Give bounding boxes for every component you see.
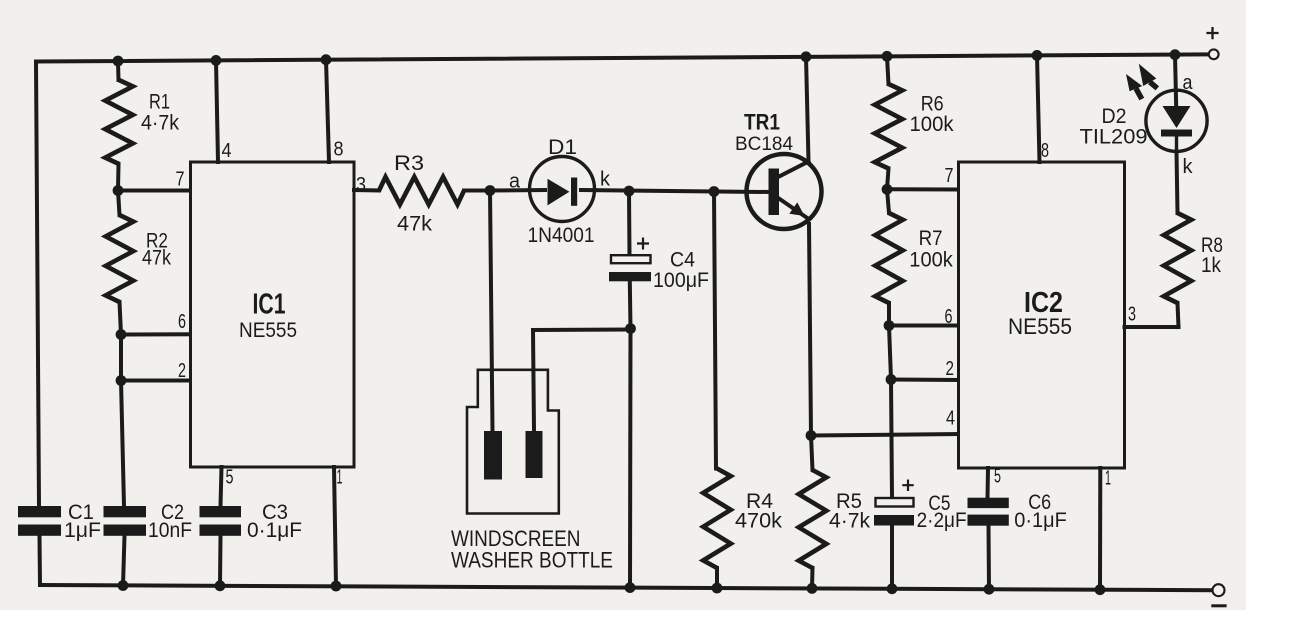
svg-text:7: 7	[945, 165, 954, 187]
svg-text:R3: R3	[394, 152, 424, 175]
label - (minus)	[1211, 604, 1226, 607]
wire top + rail	[36, 54, 1208, 61]
svg-text:8: 8	[334, 139, 344, 161]
wire IC2 pin 3	[1125, 325, 1179, 329]
junction	[1095, 584, 1106, 595]
svg-text:k: k	[600, 169, 611, 191]
wire IC1 pin 8	[326, 60, 329, 162]
svg-text:3: 3	[1128, 304, 1136, 326]
wire R1 bottom lead	[116, 164, 121, 191]
windscreen washer bottle outline	[467, 370, 559, 514]
svg-text:100k: 100k	[910, 113, 954, 136]
svg-text:100k: 100k	[909, 249, 953, 272]
wire R5 top lead	[811, 436, 813, 471]
resistor R8	[1164, 213, 1192, 303]
wire IC1 pin 5	[221, 467, 222, 506]
junction	[331, 581, 342, 592]
svg-text:4: 4	[222, 140, 232, 162]
wire IC1 pin 4	[216, 60, 218, 162]
label + (C5 polarity)	[902, 480, 913, 492]
svg-text:R1: R1	[149, 91, 170, 114]
svg-text:k: k	[1183, 156, 1194, 178]
wire TR1 collector diag	[779, 162, 809, 177]
capacitor C1	[18, 506, 61, 517]
svg-text:1k: 1k	[1201, 254, 1221, 277]
resistor R6	[875, 84, 903, 169]
junction	[118, 580, 129, 591]
label + (C4 polarity)	[637, 238, 649, 250]
svg-text:2: 2	[946, 358, 955, 380]
wire left vertical (C1 to rail)	[38, 536, 43, 585]
wire pin6-pin2 link	[119, 335, 123, 381]
node R2/pin6	[116, 329, 127, 340]
resistor R7	[875, 213, 903, 303]
wire R1 top lead	[116, 61, 121, 80]
op-amp/timer IC2 NE555 box	[959, 162, 1125, 468]
- supply terminal	[1213, 584, 1225, 596]
svg-text:NE555: NE555	[239, 318, 297, 342]
svg-text:0·1μF: 0·1μF	[247, 519, 302, 542]
op-amp/timer IC1 NE555 box	[191, 162, 355, 467]
wire R7 bottom lead	[887, 303, 891, 326]
svg-text:5: 5	[226, 467, 234, 489]
wire left vertical (rail to C1)	[36, 62, 39, 507]
svg-text:6: 6	[178, 311, 186, 333]
junction	[801, 51, 812, 62]
capacitor C3	[200, 506, 242, 517]
svg-text:a: a	[1183, 72, 1194, 94]
wire R2 bottom lead	[120, 302, 122, 335]
junction	[984, 584, 995, 595]
wire R4 top lead	[714, 192, 716, 469]
wire R6 top lead	[887, 56, 889, 84]
wire probe B lead	[533, 330, 534, 431]
wire C3 to rail	[218, 536, 223, 586]
svg-text:NE555: NE555	[1008, 314, 1072, 339]
wire IC1 pin 6	[121, 332, 194, 336]
wire IC2 pin 8	[1037, 55, 1040, 162]
LED light arrow 1	[1126, 74, 1142, 91]
wire TR1 collector to rail	[806, 56, 809, 161]
wire D2 inner lead	[1175, 133, 1178, 151]
wire IC2 pin 2	[891, 378, 959, 383]
svg-text:4·7k: 4·7k	[141, 112, 179, 135]
svg-text:6: 6	[945, 306, 953, 328]
junction	[625, 582, 636, 593]
junction	[712, 583, 723, 594]
wire R7 top lead	[887, 189, 889, 213]
svg-text:BC184: BC184	[735, 133, 793, 155]
wire pin6-pin2 link IC2	[889, 326, 891, 380]
svg-text:8: 8	[1041, 140, 1049, 162]
svg-text:47k: 47k	[397, 213, 433, 236]
wire pin3 riser	[1178, 303, 1179, 327]
wire C4 node to rail	[628, 329, 633, 588]
+ supply terminal	[1209, 49, 1219, 59]
svg-text:R7: R7	[919, 227, 943, 250]
wire IC1 pin 3	[354, 188, 379, 193]
capacitor C6	[968, 498, 1009, 508]
wire IC2 pin 6	[889, 324, 959, 328]
svg-text:4·7k: 4·7k	[829, 510, 870, 533]
resistor R3	[379, 177, 464, 205]
svg-text:1N4001: 1N4001	[528, 224, 595, 247]
LED D2 TIL209	[1146, 90, 1207, 151]
svg-text:100μF: 100μF	[653, 269, 709, 292]
capacitor C2	[104, 506, 147, 517]
resistor R1	[105, 80, 133, 164]
svg-text:10nF: 10nF	[148, 519, 192, 542]
wire D1 cathode to TR1 base	[581, 190, 769, 192]
node pin2 IC2	[886, 374, 897, 385]
wire D2 anode lead	[1175, 55, 1177, 120]
probe electrode B	[526, 431, 543, 478]
junction	[321, 54, 332, 65]
wire probe A lead	[490, 191, 493, 432]
svg-text:2·2μF: 2·2μF	[917, 509, 967, 532]
node TR1 base	[709, 186, 720, 197]
svg-text:TR1: TR1	[744, 110, 780, 135]
wire IC1 pin 1	[334, 467, 336, 586]
svg-text:0·1μF: 0·1μF	[1014, 509, 1067, 532]
svg-text:1: 1	[337, 467, 343, 489]
wire R6 bottom lead	[887, 169, 889, 190]
wire IC2 pin 4	[811, 434, 959, 436]
wire TR1 emitter diag	[779, 199, 807, 218]
wire R3 to node a	[464, 189, 490, 193]
wire C6 to rail	[987, 526, 992, 590]
node R7/pin6	[884, 320, 895, 331]
svg-text:2: 2	[178, 360, 186, 382]
wire IC2 pin 1	[1098, 468, 1102, 590]
wire IC1 pin 2	[121, 379, 193, 383]
svg-text:TIL209: TIL209	[1080, 126, 1148, 149]
svg-text:5: 5	[994, 466, 1001, 488]
wire link to C2	[121, 381, 124, 507]
resistor R5	[799, 470, 827, 568]
node TR1 emitter / pin4	[806, 430, 817, 441]
node R6/R7/pin7	[882, 184, 893, 195]
svg-text:470k: 470k	[735, 510, 783, 533]
transistor TR1 BC184	[747, 154, 822, 229]
junction	[1170, 49, 1181, 60]
wire to D1 anode	[490, 188, 545, 193]
wire C5 to rail	[890, 526, 894, 589]
wire link to C5	[891, 380, 892, 497]
label + (plus)	[1206, 27, 1218, 39]
wire R2 top lead	[118, 191, 120, 216]
junction	[215, 580, 226, 591]
svg-text:a: a	[509, 171, 521, 193]
wire R4 bottom lead	[715, 568, 719, 588]
resistor R2	[106, 215, 134, 302]
node R1/R2/pin7	[113, 185, 124, 196]
junction	[807, 583, 818, 594]
wire C4 top lead	[627, 191, 632, 255]
diode D1 1N4001	[530, 157, 595, 222]
junction	[1032, 50, 1043, 61]
wire C2 to rail	[123, 536, 125, 586]
wire IC1 pin 7	[118, 189, 191, 193]
resistor R4	[703, 469, 731, 569]
svg-text:47k: 47k	[142, 247, 171, 270]
wire TR1 emitter down	[809, 224, 811, 436]
svg-text:3: 3	[356, 174, 366, 196]
svg-text:4: 4	[946, 408, 955, 430]
node C4 top	[624, 186, 635, 197]
node a	[485, 185, 496, 196]
svg-text:1μF: 1μF	[64, 519, 101, 542]
junction	[211, 55, 222, 66]
wire R8 top lead	[1177, 151, 1178, 213]
wire R5 bottom lead	[810, 568, 815, 588]
junction	[887, 583, 898, 594]
wire IC2 pin 5	[986, 468, 991, 498]
node bottle	[625, 323, 636, 334]
wire bottle node to probe B	[533, 328, 631, 333]
svg-text:D1: D1	[548, 136, 577, 159]
probe electrode A	[484, 431, 502, 480]
svg-text:7: 7	[176, 169, 185, 191]
junction	[113, 56, 124, 67]
LED light arrow 2	[1139, 64, 1157, 86]
junction	[882, 51, 893, 62]
node pin2	[116, 375, 127, 386]
wire C4 bottom lead	[628, 281, 633, 328]
wire bottom - rail	[40, 585, 1212, 590]
wire IC2 pin 7	[887, 187, 959, 191]
svg-text:IC1: IC1	[253, 289, 286, 321]
svg-text:WASHER BOTTLE: WASHER BOTTLE	[451, 548, 613, 573]
svg-text:1: 1	[1105, 468, 1111, 490]
